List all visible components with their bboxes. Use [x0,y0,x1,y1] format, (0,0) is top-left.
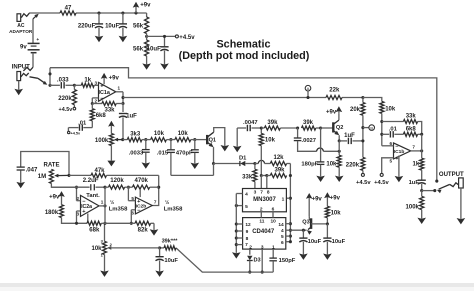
capacitor 10uF [105,13,127,42]
svg-text:33k: 33k [104,107,115,113]
capacitor .015 [157,140,175,176]
capacitor 10uF q3a [299,230,321,260]
svg-text:+4.5v: +4.5v [71,132,81,136]
resistor 20k [350,98,365,116]
capacitor 10uF divider [147,35,169,70]
battery 9v [20,38,40,53]
svg-text:33k: 33k [406,114,417,120]
resistor 33k fb1 [92,102,123,114]
resistor 12k [270,155,286,166]
wires 4047 left pins [236,224,242,245]
svg-text:4: 4 [281,228,284,234]
svg-text:470pF: 470pF [176,150,193,156]
wire 39k row [261,174,268,189]
node emitter [212,162,215,165]
capacitor .0033 [129,140,150,169]
svg-text:12k: 12k [273,155,284,161]
svg-text:39k: 39k [274,168,285,174]
svg-text:100k: 100k [95,138,109,144]
svg-text:1: 1 [282,196,285,202]
capacitor 1uF a [119,104,137,140]
svg-text:7: 7 [260,190,263,196]
wire pin6 [382,145,394,147]
wire rail [105,222,131,224]
svg-text:11: 11 [259,218,264,224]
output switch [422,183,459,194]
svg-text:.047: .047 [26,167,38,173]
svg-text:+9v: +9v [326,110,337,116]
svg-text:.015: .015 [157,150,169,156]
rail right of MN3007 [286,164,292,242]
svg-text:+4.5v: +4.5v [179,35,195,41]
node [260,126,263,129]
node [142,138,147,141]
resistor 47 [60,6,76,16]
resistor 180k [45,205,64,218]
wire clock bottom [176,248,273,272]
node wiper [121,138,124,141]
capacitor 1uF out [409,170,426,192]
svg-text:MN3007: MN3007 [253,197,276,203]
resistor 10k pin7 [259,128,275,189]
svg-text:3: 3 [94,80,97,85]
svg-text:470k: 470k [134,178,148,184]
svg-text:.0033: .0033 [129,150,144,156]
svg-text:10k: 10k [326,161,337,167]
svg-text:2: 2 [94,99,97,104]
junction [97,11,137,14]
IC CD4047 [243,218,286,251]
svg-text:82k: 82k [138,228,149,234]
svg-text:12: 12 [245,222,251,228]
svg-text:39k: 39k [303,120,314,126]
capacitor .0027 [294,128,340,151]
wire pin5 [235,204,243,207]
+9v 10k Q3 [324,192,341,206]
resistor 1k [74,77,98,87]
svg-text:6: 6 [389,141,392,146]
IC MN3007 [243,189,287,213]
INPUT jack [12,64,30,80]
op-amp IC1b [389,141,415,164]
svg-text:+9v: +9v [109,75,120,81]
svg-text:D1: D1 [239,156,247,162]
wire LFO rail bottom [62,218,88,224]
wire MN3007 pin6 to 10 [272,212,274,218]
svg-text:220k: 220k [346,162,360,168]
resistor 39k pin8 [267,168,287,178]
wire IC2b pin6 [130,210,136,225]
svg-text:.01: .01 [389,126,398,132]
svg-text:6: 6 [272,207,275,213]
input switch arm [30,77,48,85]
capacitor 180pF [301,128,324,182]
capacitor 470pF [176,140,199,169]
wire MN3007 pin2 to 11 [260,212,262,218]
terminal +4.5v 220k [59,105,76,113]
op-amp IC1a [94,80,120,103]
svg-text:6k8: 6k8 [406,126,417,132]
diode D1 [239,156,255,166]
svg-text:10uF: 10uF [332,239,346,245]
svg-text:1: 1 [118,86,121,91]
AC adaptor jack [9,13,33,34]
svg-text:8: 8 [246,236,249,242]
svg-text:B: B [370,125,373,130]
resistor 3k3 [123,132,142,142]
svg-text:(Depth pot mod included): (Depth pot mod included) [179,50,310,62]
resistor 33k fb2 [382,114,422,135]
ground 82k [150,223,159,235]
svg-text:.01: .01 [78,121,87,127]
node IC2a out [99,186,107,225]
resistor 47k [69,168,159,178]
node [125,186,130,189]
+9v LFO [49,191,65,205]
node [73,84,76,87]
wire lfo out [152,175,160,205]
node rate wiper [67,174,70,177]
svg-text:.033: .033 [57,77,69,83]
resistor 10k a [146,131,167,142]
svg-text:10k: 10k [385,107,396,113]
svg-text:2.2uF: 2.2uF [83,178,99,184]
svg-text:+9v: +9v [312,196,323,202]
wire pin3 down [261,249,264,274]
svg-text:+4.5v: +4.5v [374,180,389,186]
node [253,162,256,165]
resistor 6k8 b [403,126,423,136]
svg-text:A: A [307,86,310,91]
wire 10k down [380,113,383,145]
svg-text:10k: 10k [91,246,102,252]
capacitor .047 [16,152,69,189]
wire top rail [29,13,147,17]
+9v Q3 collector [306,193,323,216]
wire IC2a pin3 [75,211,81,225]
svg-text:5: 5 [389,158,392,163]
potentiometer 10k [91,223,159,277]
svg-text:.0047: .0047 [243,120,258,126]
svg-text:47k: 47k [94,168,105,174]
svg-text:Schematic: Schematic [216,39,270,51]
ground .0047 [233,128,242,152]
svg-text:150pF: 150pF [279,258,296,264]
svg-text:ADAPTOR: ADAPTOR [9,29,33,34]
node +4.5v divider [145,34,195,41]
svg-text:7: 7 [154,199,157,204]
svg-text:10k: 10k [265,137,276,143]
svg-text:220uF: 220uF [78,24,96,30]
resistor 120k [105,178,125,189]
svg-text:1uF: 1uF [409,180,420,186]
node input [48,68,51,87]
resistor 39k b [302,120,321,130]
wire IC2a vminus [87,214,89,224]
label half lm358 a [109,199,128,213]
svg-text:1k: 1k [84,77,91,83]
capacitor .033 [50,77,74,88]
wire IC1a out [116,92,125,105]
resistor 220k b [346,157,372,186]
svg-text:5: 5 [245,204,248,210]
capacitor 10uF lfo [155,248,178,277]
svg-text:3: 3 [254,190,257,196]
capacitor 2.2uF Tant [51,178,105,199]
resistor 10k q3 [325,206,341,225]
svg-text:1uF: 1uF [126,113,137,119]
resistor 39k*** [160,239,179,250]
svg-text:9: 9 [246,229,249,235]
svg-text:100k: 100k [406,204,420,210]
svg-text:56k: 56k [133,24,144,30]
svg-text:6: 6 [281,240,284,246]
svg-text:33k: 33k [242,175,253,181]
resistor 68k [87,221,105,233]
title [179,39,310,63]
svg-text:Q2: Q2 [336,125,343,131]
svg-text:Lm358: Lm358 [109,207,128,213]
battery switch arrow [33,14,39,43]
wire signal [123,97,363,99]
+9v IC1a [101,73,120,84]
label OUTPUT [439,172,464,178]
svg-text:Q1: Q1 [209,138,216,144]
wire corner [363,98,382,102]
node [166,138,172,141]
svg-text:56k: 56k [133,47,144,53]
ground 56k [142,56,151,70]
capacitor 150pF [269,249,295,272]
node B [363,125,375,131]
rail left of ICs [232,194,241,259]
node [296,126,299,129]
svg-text:10uF: 10uF [147,46,161,52]
+9v Q2 [326,106,342,115]
wire 015 return [171,164,214,176]
svg-text:20k: 20k [350,107,361,113]
node Q2 base [319,126,333,129]
svg-text:Lm358: Lm358 [164,207,183,213]
resistor 10k b [171,131,191,142]
svg-text:OUTPUT: OUTPUT [439,172,464,178]
wire IC2b vplus [139,190,141,198]
svg-text:220k: 220k [58,96,72,102]
wire pin5 +4.5v [374,158,393,186]
wire IC2a pin2 [75,186,81,201]
svg-text:9v: 9v [20,44,27,50]
wires 4047 right pins [286,224,292,244]
potentiometer 100k [95,121,123,167]
svg-text:10uF: 10uF [308,239,322,245]
svg-text:10k: 10k [178,131,189,137]
svg-text:10uF: 10uF [164,258,178,264]
node [191,138,197,141]
svg-text:39k: 39k [267,120,278,126]
svg-text:10: 10 [271,218,277,224]
wire Q1 base [195,139,206,141]
svg-text:+9v: +9v [140,3,151,9]
svg-text:+: + [36,38,39,43]
svg-text:7: 7 [412,145,415,150]
svg-text:7: 7 [245,242,248,248]
svg-text:+9v: +9v [49,195,60,201]
svg-text:120k: 120k [110,178,124,184]
node A [305,85,311,99]
node [158,246,161,249]
label half lm358 b [164,199,183,213]
svg-text:CD4047: CD4047 [252,229,275,235]
svg-text:47: 47 [65,6,72,12]
svg-text:1k: 1k [413,162,420,168]
op-amp IC2a [76,195,103,216]
svg-text:180k: 180k [45,210,59,216]
svg-text:5: 5 [281,234,284,240]
svg-text:3k3: 3k3 [130,132,141,138]
svg-text:.0027: .0027 [302,138,317,144]
svg-text:½: ½ [110,199,114,206]
svg-text:+9v: +9v [330,196,341,202]
svg-text:1uF: 1uF [344,133,355,139]
wire 20k down [361,115,364,157]
capacitor 220uF [78,13,103,42]
ground IC1b [395,156,404,183]
svg-text:6k8: 6k8 [96,113,107,119]
svg-text:IC1a: IC1a [99,90,111,96]
capacitor .01 a [68,121,93,136]
svg-text:INPUT: INPUT [12,64,30,70]
svg-text:Tant.: Tant. [86,193,100,199]
svg-text:D3: D3 [254,257,261,263]
resistor 10k Q2 [326,151,343,182]
svg-text:2: 2 [260,207,263,213]
resistor 39k a [261,120,297,130]
capacitor .0047 [237,120,261,131]
resistor 10k c [380,101,396,113]
wire [214,163,240,165]
capacitor .01 b [382,126,404,137]
wire IC1b out [411,134,424,152]
svg-text:68k: 68k [89,228,100,234]
ground Q1 collector [221,145,230,151]
svg-text:14: 14 [278,222,284,228]
svg-text:10k: 10k [331,210,342,216]
svg-text:1: 1 [101,200,104,205]
resistor 1k out [413,151,424,170]
wire hop [255,160,270,163]
resistor 220k [58,85,76,105]
wire battery to input jack [23,53,33,71]
svg-text:Q3: Q3 [302,220,309,226]
resistor 56k lower [133,36,149,56]
resistor 22k [326,88,342,100]
svg-text:22k: 22k [329,88,340,94]
resistor 100k out [406,191,426,224]
transistor Q2 [333,113,343,141]
node Q2 emitter [338,139,341,153]
+9v rail arrow [133,2,151,13]
svg-text:39k***: 39k*** [162,239,179,245]
svg-text:10k: 10k [154,131,165,137]
svg-text:180pF: 180pF [301,161,318,167]
svg-text:8: 8 [267,190,270,196]
resistor 33k bias [242,164,257,189]
wire IC2b pin5 [128,187,135,201]
wire pin2 [91,98,99,105]
svg-text:+4.5v: +4.5v [59,107,73,113]
svg-text:+4.5v: +4.5v [356,180,371,186]
transistor Q3 [302,216,327,234]
svg-text:½: ½ [165,199,169,206]
wire depth feed [50,68,438,183]
resistor 470k [128,178,158,189]
wire pin4 [236,193,242,195]
svg-text:4: 4 [245,191,248,197]
potentiometer RATE 1M [38,163,77,188]
transistor Q1 [207,128,225,164]
svg-text:10uF: 10uF [105,24,119,30]
diode D3 [247,249,261,274]
ground input jack [14,81,23,96]
node 20k [361,96,364,99]
capacitor 1uF b [339,133,363,144]
resistor 6k8 a [90,104,106,121]
resistor 56k upper [133,17,149,34]
op-amp IC2b [131,196,157,216]
svg-text:RATE: RATE [43,163,59,169]
output jack [457,178,466,225]
capacitor 10uF q3b [323,224,345,260]
resistor 82k [131,221,154,233]
svg-text:1M: 1M [38,174,46,180]
wire Q3 emitter row [290,229,306,232]
